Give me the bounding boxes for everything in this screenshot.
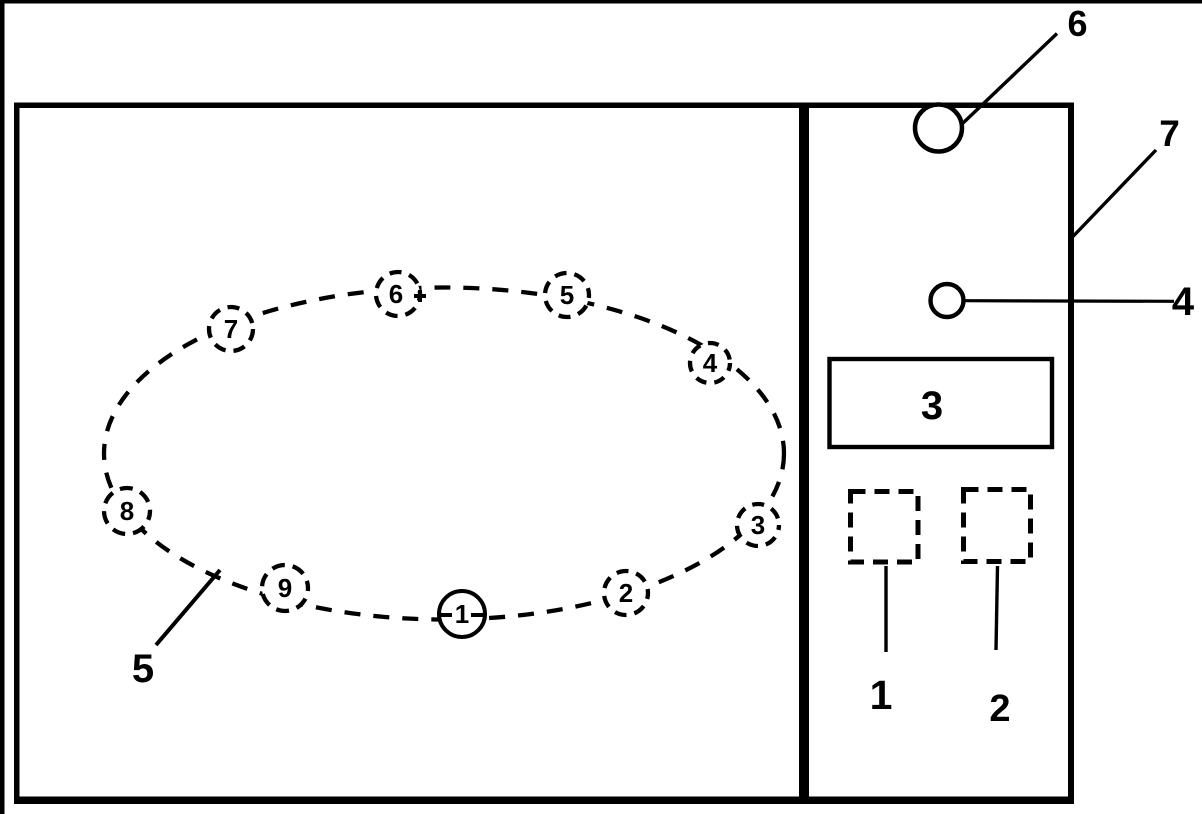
knob circle (item 4) [931,284,964,317]
svg-text:1: 1 [870,672,893,718]
svg-text:7: 7 [224,314,238,344]
node 1 (solid circle) [439,591,485,637]
svg-text:9: 9 [278,573,292,603]
door handle circle (item 6) [915,105,962,152]
svg-text:2: 2 [989,688,1010,730]
node 7 [209,307,253,351]
leader line 4 [964,299,1174,303]
node 8 [104,488,150,534]
leader line 5 [156,570,220,645]
svg-text:6: 6 [1067,3,1087,44]
svg-text:5: 5 [560,280,574,310]
node 3 [737,504,779,546]
page left border [0,0,5,814]
svg-text:8: 8 [120,496,134,526]
node 5 [545,273,589,317]
svg-text:7: 7 [1159,113,1180,154]
dashed button 2 [964,490,1031,562]
svg-text:3: 3 [751,510,765,540]
leader line 2 [996,566,998,650]
leader line 1 [884,566,887,652]
device outline rectangle [14,103,1074,805]
svg-text:4: 4 [703,348,718,378]
svg-text:6: 6 [389,279,403,309]
node 9 [262,565,308,611]
svg-text:1: 1 [455,599,469,629]
page top border [0,0,1202,4]
svg-text:3: 3 [921,384,943,428]
node 2 [604,571,648,615]
dashed ellipse 5 (turntable path) [104,288,784,620]
node 4 [690,343,730,383]
svg-text:5: 5 [132,647,154,691]
leader line 7 [1073,150,1157,237]
leader line 6 [962,34,1057,125]
svg-text:4: 4 [1172,280,1195,324]
dashed button 1 [851,492,919,563]
display rectangle 3 [830,359,1053,447]
svg-text:2: 2 [619,578,633,608]
node 6 [376,272,426,316]
divider wall between door and control panel [799,103,809,803]
